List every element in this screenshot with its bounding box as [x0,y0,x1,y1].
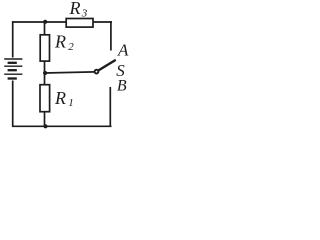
svg-text:R: R [54,88,66,108]
svg-text:3: 3 [81,7,88,19]
svg-text:1: 1 [68,97,74,109]
svg-text:B: B [117,77,127,94]
svg-text:2: 2 [68,41,74,53]
svg-text:R: R [54,32,66,52]
svg-text:A: A [117,41,129,60]
svg-text:R: R [69,0,81,18]
